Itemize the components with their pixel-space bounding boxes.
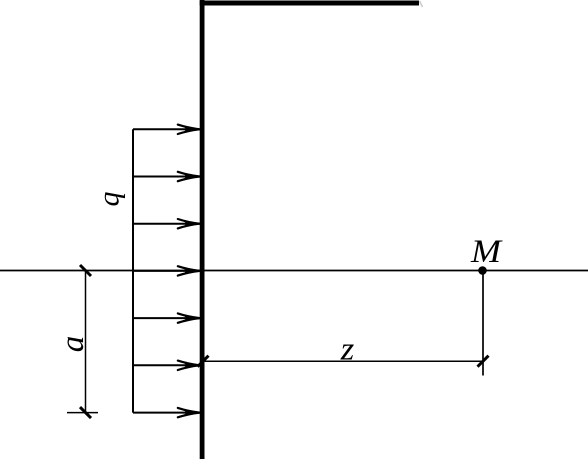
svg-text:a: a [55, 336, 91, 353]
dimension a: vertical dimension line [85, 271, 87, 413]
dimension z: right tick [478, 356, 489, 367]
dimension a: bottom extension line [67, 412, 98, 414]
dimension z: left tick [198, 356, 209, 367]
wall (thick vertical beam) [200, 0, 205, 459]
axis line (horizontal centerline through M) [0, 270, 588, 272]
load arrow 7 [133, 408, 200, 417]
load arrow 5 [133, 313, 200, 322]
dimension a: bottom tick [80, 407, 91, 418]
dimension z: horizontal dimension line [203, 360, 483, 362]
svg-text:M: M [470, 234, 503, 270]
faint mark at flange end [420, 1, 423, 7]
top flange (thick horizontal line) [200, 1, 419, 6]
load arrow 4 (on axis) [133, 266, 200, 275]
load arrow 1 [133, 125, 200, 134]
load arrow 3 [133, 219, 200, 228]
point M dot [478, 266, 487, 275]
svg-text:z: z [340, 332, 355, 368]
load arrow 6 [133, 361, 200, 370]
dimension a: top tick [80, 265, 91, 276]
point M stem (vertical line below dot) [482, 271, 484, 376]
load arrow 2 [133, 172, 200, 181]
svg-text:q: q [93, 192, 126, 207]
distributed load left edge line [132, 129, 134, 412]
